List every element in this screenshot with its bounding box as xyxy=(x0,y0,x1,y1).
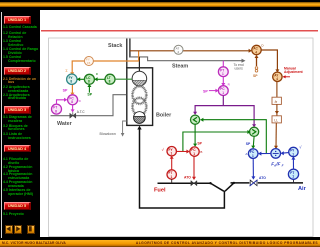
label SP air xyxy=(246,142,251,146)
arrow into AC xyxy=(249,49,252,53)
water pipe xyxy=(51,95,127,116)
bottom orange banner xyxy=(0,240,320,247)
sidebar link 4.5 xyxy=(3,189,40,197)
label Fuel xyxy=(154,187,166,193)
fuel sqrt annotation xyxy=(162,147,165,152)
svg-text:1: 1 xyxy=(292,175,294,179)
svg-text:4: 4 xyxy=(276,77,278,81)
analyzer controller AC4 xyxy=(252,45,261,54)
steam drum xyxy=(132,71,147,86)
annotation R on LC xyxy=(96,72,99,76)
label FA/FF ratio xyxy=(271,162,283,168)
svg-text:ATO: ATO xyxy=(184,175,191,179)
fuel control valve ATO xyxy=(191,181,197,186)
svg-text:1: 1 xyxy=(193,152,195,156)
svg-text:8: 8 xyxy=(109,80,111,84)
sidebar link 2.3 xyxy=(3,94,40,102)
sidebar link 3.3 xyxy=(3,133,40,141)
svg-text:/F: /F xyxy=(275,162,280,167)
riser tube loop upper xyxy=(133,86,147,104)
label Blowdown xyxy=(100,132,116,136)
svg-text:SP: SP xyxy=(63,89,68,93)
svg-text:8: 8 xyxy=(88,80,90,84)
label Air xyxy=(298,186,307,192)
svg-text:ATO: ATO xyxy=(259,176,266,180)
purple demand line xyxy=(195,96,254,126)
LC setpoint arrow xyxy=(87,84,91,93)
svg-text:1: 1 xyxy=(252,154,254,158)
orange steam-flow signal line xyxy=(72,51,138,74)
svg-text:F: F xyxy=(282,164,284,168)
label Stack xyxy=(108,43,122,49)
svg-text:Blowdown: Blowdown xyxy=(100,132,116,136)
sidebar link 1.1 xyxy=(3,26,40,30)
svg-text:4: 4 xyxy=(255,50,257,54)
PC1 setpoint arrow xyxy=(209,89,219,93)
wire AC4 to AY xyxy=(261,50,279,73)
nav glyph forward xyxy=(16,226,20,231)
sidebar link 5.1 xyxy=(3,213,40,217)
annotation A on air FC xyxy=(245,152,247,156)
svg-text:A.T.C: A.T.C xyxy=(77,110,85,114)
level transmitter LT xyxy=(105,74,115,84)
ratio divider FY xyxy=(271,149,281,159)
fuel flow controller FC xyxy=(190,147,199,156)
steam pipe arrow xyxy=(242,59,246,63)
sidebar unit 4 button xyxy=(4,145,31,153)
annotation D on FC xyxy=(79,99,82,103)
sidebar link 1.3 xyxy=(3,40,40,48)
arrow into summer top xyxy=(70,72,74,75)
svg-text:Steam: Steam xyxy=(172,64,188,70)
air flow to low selector wire xyxy=(200,118,266,154)
bias relay AY xyxy=(273,72,282,81)
svg-text:1: 1 xyxy=(222,72,224,76)
low selector xyxy=(191,115,200,124)
svg-text:fx: fx xyxy=(275,100,278,104)
riser tube loop lower xyxy=(133,98,147,116)
label To end users xyxy=(234,63,244,71)
square root FY15 xyxy=(84,57,93,66)
label SP pressure xyxy=(203,89,208,93)
analyzer transmitter AT4 xyxy=(174,45,183,54)
label SP feedwater xyxy=(63,89,68,93)
wire air FT to FY xyxy=(291,157,295,170)
svg-text:Stack: Stack xyxy=(108,43,122,49)
mud drum xyxy=(134,112,146,124)
air junction node xyxy=(233,182,235,184)
flue gas signal line xyxy=(130,50,249,52)
svg-text:8: 8 xyxy=(55,110,57,114)
wire air FC to damper xyxy=(251,158,255,179)
svg-text:LL: LL xyxy=(274,118,278,122)
svg-text:SP: SP xyxy=(203,89,208,93)
wire fuel FC to valve xyxy=(192,156,196,180)
sidebar link 3.1 xyxy=(3,116,40,124)
label SP level xyxy=(87,92,92,96)
air pipe xyxy=(225,183,303,191)
label SP oxygen xyxy=(253,74,258,78)
wire FC to valve ATC xyxy=(71,105,75,113)
svg-text:Adjustment: Adjustment xyxy=(284,70,304,74)
orange SP line summer to FC xyxy=(71,84,73,94)
wire PT1 to PC1 xyxy=(221,77,225,87)
wire LT to drum xyxy=(115,78,132,80)
annotation R on PC1 xyxy=(228,82,231,86)
nav button home xyxy=(27,225,36,234)
diagram canvas frame xyxy=(49,38,314,237)
sidebar link 4.4 xyxy=(3,181,40,189)
svg-text:B: B xyxy=(200,150,202,154)
fx limiter box xyxy=(272,97,281,104)
AC4 setpoint arrow xyxy=(255,55,259,72)
fuel flow transmitter FT xyxy=(167,170,176,179)
pressure transmitter PT1 xyxy=(218,67,228,77)
burner feed pipe xyxy=(140,128,225,208)
wire limiter to ratio divider xyxy=(274,123,278,149)
fuel FT stem xyxy=(171,179,173,183)
red title underline xyxy=(41,30,318,32)
sidebar link 2.1 xyxy=(3,78,40,86)
svg-text:1: 1 xyxy=(171,152,173,156)
sidebar white divider line xyxy=(1,12,2,238)
svg-text:Fuel: Fuel xyxy=(154,187,166,193)
nav glyph back xyxy=(6,226,10,231)
sidebar link 4.2 xyxy=(3,166,40,174)
svg-text:8: 8 xyxy=(71,100,73,104)
svg-text:1: 1 xyxy=(292,152,294,156)
arrow into feedwater FC top xyxy=(70,93,74,96)
wire fuel FY to FC xyxy=(176,150,189,154)
sidebar link 1.2 xyxy=(3,32,40,40)
svg-text:1: 1 xyxy=(222,91,224,95)
sidebar link 2.2 xyxy=(3,86,40,94)
sidebar link 4.3 xyxy=(3,173,40,181)
sidebar unit 5 button xyxy=(4,202,31,210)
air damper ATO xyxy=(249,180,257,186)
wire LC to summer xyxy=(77,77,85,81)
svg-text:Air: Air xyxy=(298,186,307,192)
nav button back xyxy=(5,225,14,234)
sidebar link 1.4 xyxy=(3,48,40,56)
top orange banner xyxy=(0,2,320,7)
fuel junction node xyxy=(209,182,211,184)
svg-text:SP: SP xyxy=(246,142,251,146)
fuel pipe xyxy=(158,183,224,191)
svg-text:A: A xyxy=(245,152,247,156)
svg-text:Water: Water xyxy=(57,121,73,127)
label Steam xyxy=(172,64,188,70)
bottom credits text xyxy=(0,240,320,242)
annotation B on fuel FC xyxy=(200,150,202,154)
sidebar unit 1 button xyxy=(4,16,31,24)
sidebar link 3.2 xyxy=(3,125,40,133)
label ATO fuel xyxy=(184,175,191,179)
wire LT to LC xyxy=(94,77,105,81)
steam drum outlet pipe xyxy=(138,57,140,71)
wire air FY to divider xyxy=(281,151,289,155)
sidebar unit 2 button xyxy=(4,67,31,75)
air sqrt annotation xyxy=(299,145,302,150)
steam pressure tap xyxy=(222,61,224,67)
boiler shell xyxy=(127,68,153,126)
label SP fuel xyxy=(197,142,202,146)
label ATO air xyxy=(259,176,266,180)
svg-text:SP: SP xyxy=(197,142,202,146)
feedwater flow controller FC xyxy=(68,95,78,105)
summer sigma annotation xyxy=(65,69,68,73)
blowdown pipe xyxy=(121,121,127,137)
fuel square root FY xyxy=(167,147,176,156)
label Manual Adjustment xyxy=(283,66,304,78)
air flow transmitter FT xyxy=(288,169,298,179)
high select to air FC wire xyxy=(251,136,255,148)
svg-text:1: 1 xyxy=(171,175,173,179)
sidebar unit 3 button xyxy=(4,106,31,114)
stack left wall xyxy=(126,39,128,69)
burner arrow into boiler xyxy=(137,126,141,130)
wire AY to limiter xyxy=(276,82,278,98)
label Boiler xyxy=(156,113,172,119)
label Water xyxy=(57,121,73,127)
stack right wall xyxy=(129,39,131,58)
air flow controller FC xyxy=(248,149,258,159)
nav glyph home xyxy=(29,226,32,231)
wire between limiters xyxy=(275,104,279,115)
fuel flow to high selector wire xyxy=(183,130,251,151)
svg-text:users: users xyxy=(235,67,244,71)
arrow into low select xyxy=(193,112,197,115)
air square root FY xyxy=(289,147,298,156)
summing relay LY xyxy=(67,74,77,84)
svg-text:8: 8 xyxy=(70,80,72,84)
feedwater flow transmitter FT xyxy=(52,104,62,114)
sidebar link 4.1 xyxy=(3,158,40,166)
low select to fuel FC wire xyxy=(193,124,197,147)
svg-text:SP: SP xyxy=(87,92,92,96)
wire divider to air FC xyxy=(258,152,271,156)
steam pipe xyxy=(130,57,242,61)
pressure controller PC1 xyxy=(218,86,228,96)
svg-text:Boiler: Boiler xyxy=(156,113,172,119)
svg-text:SP: SP xyxy=(253,74,258,78)
svg-text:15: 15 xyxy=(87,61,91,65)
wire fuel FT to FY xyxy=(170,156,174,170)
level controller LC xyxy=(84,74,94,84)
label ATC xyxy=(77,110,85,114)
arrow into high select xyxy=(252,124,256,127)
feedwater valve ATC xyxy=(70,112,76,118)
annotation D on AC4 xyxy=(261,43,264,47)
wire FT to FC feedwater xyxy=(57,98,68,104)
high selector xyxy=(250,127,259,136)
air FT stem xyxy=(293,179,295,183)
LL limiter box xyxy=(272,116,281,123)
nav button forward xyxy=(14,225,23,234)
sidebar link 1.5 xyxy=(3,56,40,64)
